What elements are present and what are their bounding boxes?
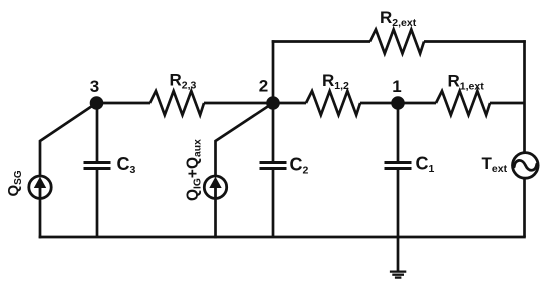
wire diagonal node3 to Q_SG bbox=[40, 103, 97, 176]
wire node2 up to top rail bbox=[272, 40, 275, 103]
wire node2 to R1,2 bbox=[273, 102, 306, 105]
wire node3 to R2,3 bbox=[97, 102, 151, 105]
capacitor C3 bbox=[84, 163, 111, 169]
ground bbox=[390, 272, 406, 278]
current source Q_IG+Q_aux bbox=[204, 176, 226, 198]
wire bottom rail bbox=[39, 236, 526, 239]
capacitor C1 bbox=[385, 163, 412, 169]
svg-text:QIG+Qaux: QIG+Qaux bbox=[185, 139, 204, 201]
wire node1 to R1,ext bbox=[398, 102, 436, 105]
svg-text:3: 3 bbox=[90, 77, 99, 96]
wire C3 to bottom rail bbox=[96, 169, 99, 237]
svg-text:R1,2: R1,2 bbox=[322, 71, 349, 92]
wire node1 down to C1 bbox=[397, 103, 400, 162]
svg-text:1: 1 bbox=[392, 77, 401, 96]
svg-text:Text: Text bbox=[482, 154, 508, 175]
svg-text:C2: C2 bbox=[290, 155, 309, 177]
wire node3 down to C3 bbox=[96, 103, 99, 162]
wire top rail left segment bbox=[272, 40, 370, 43]
wire top rail right segment bbox=[424, 40, 526, 43]
svg-text:C3: C3 bbox=[117, 154, 136, 176]
node 1 bbox=[391, 96, 405, 110]
wire Q_IG to bottom rail bbox=[214, 199, 217, 238]
wire R1,2 to node1 bbox=[360, 102, 398, 105]
resistor R1,2 bbox=[306, 91, 360, 115]
svg-text:2: 2 bbox=[259, 77, 268, 96]
resistor R1,ext bbox=[436, 91, 490, 115]
current source Q_SG bbox=[29, 176, 51, 198]
resistor R2,ext bbox=[370, 30, 424, 54]
node 3 bbox=[90, 96, 104, 110]
wire diagonal node2 to Q_IG bbox=[216, 103, 274, 176]
svg-text:R2,3: R2,3 bbox=[170, 70, 197, 91]
wire C2 to bottom rail bbox=[272, 169, 275, 237]
resistor R2,3 bbox=[150, 91, 204, 115]
wire right vertical upper bbox=[523, 40, 526, 153]
wire node2 down to C2 bbox=[272, 103, 275, 162]
wire T_ext to bottom rail bbox=[523, 179, 526, 238]
node 2 bbox=[266, 96, 280, 110]
capacitor C2 bbox=[260, 163, 287, 169]
source T_ext bbox=[513, 153, 539, 179]
svg-text:R1,ext: R1,ext bbox=[448, 71, 485, 92]
wire R1,ext to right vertical bbox=[490, 102, 525, 105]
svg-text:R2,ext: R2,ext bbox=[380, 8, 417, 29]
wire Q_SG to bottom rail bbox=[39, 199, 42, 238]
wire R2,3 to node2 bbox=[204, 102, 273, 105]
wire C1 through bottom rail to ground bbox=[397, 169, 400, 271]
svg-text:QSG: QSG bbox=[5, 170, 24, 196]
svg-text:C1: C1 bbox=[416, 153, 435, 175]
